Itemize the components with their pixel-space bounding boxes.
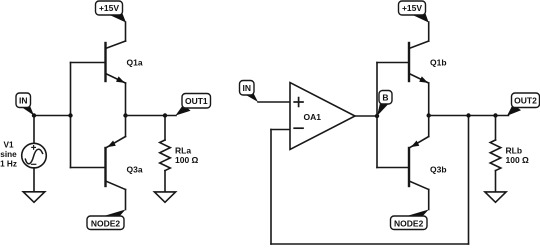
svg-text:B: B <box>382 93 388 103</box>
wire Q3b collector down <box>428 190 430 210</box>
junction base tap (left) <box>68 113 72 117</box>
ground RLa <box>154 192 175 202</box>
svg-text:V1: V1 <box>3 140 13 149</box>
wire Q1a collector to +15V <box>125 22 127 41</box>
svg-text:Q3a: Q3a <box>127 164 143 174</box>
wire Q3a base <box>71 167 106 169</box>
transistor Q1a <box>106 41 143 83</box>
svg-text:1 Hz: 1 Hz <box>0 160 17 169</box>
junction OUT1 emitters node <box>123 113 127 117</box>
svg-text:OA1: OA1 <box>304 112 322 122</box>
svg-text:Q1a: Q1a <box>127 58 143 68</box>
wire base vertical (right) <box>376 63 378 168</box>
wire IN node to base vertical <box>34 115 71 117</box>
wire feedback to op-amp - input <box>271 129 290 131</box>
svg-text:NODE2: NODE2 <box>91 218 121 228</box>
ground RLb <box>485 192 506 202</box>
transistor Q1b <box>409 41 447 83</box>
wire OUT node to OUT1 flag <box>126 115 177 117</box>
wire op-amp output to B node <box>355 115 377 117</box>
junction RLb tap <box>493 113 497 117</box>
junction OUT2 emitters node <box>427 113 431 117</box>
svg-text:RLa: RLa <box>175 146 191 156</box>
junction IN node <box>32 113 36 117</box>
feedback wire left vertical <box>270 130 272 245</box>
svg-text:IN: IN <box>243 83 252 93</box>
label V1 sine 1 Hz <box>0 140 17 168</box>
svg-text:sine: sine <box>0 150 17 159</box>
junction B node <box>375 114 379 118</box>
wire emitters (Q1a to OUT node) <box>125 83 127 116</box>
wire Q1b collector to +15V <box>428 22 430 41</box>
feedback wire bottom <box>271 243 469 245</box>
wire OUT2 node to Q3b emitter <box>428 116 430 137</box>
svg-text:100 Ω: 100 Ω <box>175 155 199 165</box>
junction RLa tap <box>163 113 167 117</box>
net flag OUT1 <box>176 94 211 116</box>
junction feedback tap <box>466 113 470 117</box>
net flag NODE2 (left) <box>87 210 126 230</box>
svg-text:OUT1: OUT1 <box>185 96 208 106</box>
net flag +15V (right) <box>399 1 429 23</box>
svg-text:100 Ω: 100 Ω <box>506 155 530 165</box>
net flag +15V (left) <box>96 1 127 23</box>
svg-text:NODE2: NODE2 <box>394 218 424 228</box>
ground V1 <box>23 192 45 203</box>
resistor RLa <box>160 140 199 171</box>
transistor Q3b <box>409 137 447 190</box>
svg-text:Q1b: Q1b <box>430 58 447 68</box>
wire Q1a base <box>71 62 106 64</box>
net flag IN (left) <box>16 93 34 116</box>
svg-text:+15V: +15V <box>99 3 119 13</box>
wire OUT node to Q3a emitter <box>125 116 127 137</box>
svg-text:IN: IN <box>19 95 28 105</box>
wire OUT1 node to RLa <box>164 116 166 141</box>
wire Q3b base <box>377 167 409 169</box>
transistor Q3a <box>106 137 143 190</box>
wire RLa to ground <box>164 171 166 192</box>
feedback wire right vertical <box>468 116 470 245</box>
wire Q3a collector down <box>125 190 127 210</box>
svg-text:+15V: +15V <box>402 3 422 13</box>
wire RLb to ground <box>495 171 497 192</box>
svg-text:OUT2: OUT2 <box>514 96 537 106</box>
op-amp OA1 <box>290 83 355 150</box>
wire IN to op-amp + input <box>258 101 290 103</box>
wire IN node to V1 <box>33 116 35 144</box>
net flag OUT2 <box>507 93 540 116</box>
wire V1 to ground <box>33 168 35 192</box>
wire OUT2 line <box>429 115 509 117</box>
net flag NODE2 (right) <box>391 210 429 230</box>
wire base vertical (left) <box>70 63 72 168</box>
svg-text:Q3b: Q3b <box>430 164 447 174</box>
voltage source V1 <box>22 143 47 168</box>
net flag IN (right) <box>240 81 259 103</box>
wire OUT2 node to RLb <box>495 116 497 141</box>
wire Q1b base <box>377 62 409 64</box>
wire Q1b emitter to OUT2 node <box>428 83 430 116</box>
net flag B <box>377 91 392 117</box>
svg-text:RLb: RLb <box>506 146 523 156</box>
resistor RLb <box>490 140 529 171</box>
